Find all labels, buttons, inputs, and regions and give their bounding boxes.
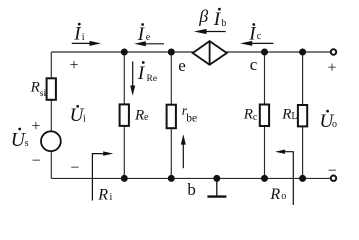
- arrow Ro bent: [275, 150, 293, 206]
- arrow Ib up through rbe: [181, 134, 186, 168]
- svg-text:c: c: [253, 112, 258, 123]
- svg-text:R: R: [243, 107, 253, 123]
- svg-text:L: L: [291, 111, 297, 122]
- label IRe: [137, 61, 157, 84]
- svg-text:+: +: [69, 57, 78, 74]
- svg-text:b: b: [187, 180, 196, 199]
- node b dot: [168, 175, 175, 182]
- label Rsi: [30, 80, 47, 100]
- label Ii: [73, 23, 85, 45]
- label Ri: [97, 186, 112, 203]
- resistor rbe: [167, 105, 176, 129]
- label Ic: [248, 23, 261, 44]
- arrow Ii: [72, 41, 101, 46]
- label rbe: [182, 103, 197, 124]
- node dot ground: [213, 175, 220, 182]
- label Uo: [320, 110, 338, 132]
- wire RL branch: [302, 52, 304, 105]
- label Re: [134, 108, 149, 124]
- svg-text:R: R: [281, 107, 291, 123]
- terminal - output bottom: [331, 176, 336, 181]
- resistor RL: [298, 105, 307, 126]
- wire top rail: [51, 51, 330, 53]
- resistor Re: [120, 104, 129, 126]
- node dot bottom Rc: [261, 175, 268, 182]
- resistor Rc: [260, 105, 269, 127]
- svg-text:+: +: [327, 59, 336, 76]
- svg-text:i: i: [82, 32, 85, 43]
- node dot bottom RL: [299, 175, 306, 182]
- arrow beta Ib: [194, 29, 226, 34]
- svg-text:R: R: [269, 186, 280, 203]
- svg-text:o: o: [281, 191, 286, 202]
- wire rbe branch: [170, 52, 172, 105]
- wire bottom rail: [51, 177, 330, 179]
- terminal + output top: [331, 49, 336, 54]
- svg-text:c: c: [257, 31, 262, 42]
- svg-text:i: i: [83, 113, 86, 124]
- node dot bottom Re: [121, 175, 128, 182]
- label Rc: [243, 107, 258, 123]
- arrow Ic: [240, 41, 273, 46]
- svg-text:Re: Re: [147, 74, 158, 84]
- arrow IRe down: [130, 61, 135, 95]
- label RL: [281, 107, 297, 123]
- wire left branch middle: [50, 100, 52, 132]
- node c dot: [261, 49, 268, 56]
- label Us: [11, 128, 29, 152]
- svg-text:c: c: [250, 55, 258, 74]
- svg-text:−: −: [32, 153, 41, 170]
- node dot top RL: [299, 49, 306, 56]
- svg-text:R: R: [97, 186, 108, 203]
- svg-text:−: −: [70, 159, 79, 176]
- label Ui: [70, 105, 86, 126]
- svg-text:e: e: [178, 56, 186, 75]
- label Ro: [269, 186, 286, 203]
- svg-text:s: s: [25, 138, 29, 149]
- wire left branch upper: [50, 52, 52, 79]
- svg-text:−: −: [328, 162, 337, 179]
- wire left branch lower: [50, 151, 52, 178]
- wire Re branch: [123, 52, 125, 104]
- wire Rc branch: [264, 52, 266, 105]
- node e dot: [168, 49, 175, 56]
- svg-text:+: +: [31, 118, 40, 135]
- label beta Ib: [198, 6, 226, 30]
- svg-text:e: e: [146, 32, 151, 43]
- svg-text:i: i: [110, 192, 113, 203]
- arrow Ie: [134, 41, 164, 46]
- svg-text:b: b: [221, 18, 226, 29]
- svg-text:be: be: [186, 112, 197, 124]
- source Us circle: [41, 131, 61, 151]
- svg-text:R: R: [30, 80, 40, 96]
- svg-text:o: o: [332, 119, 337, 130]
- ground: [207, 178, 226, 196]
- node dot top Re: [121, 49, 128, 56]
- svg-text:R: R: [134, 108, 144, 124]
- svg-text:β: β: [198, 6, 208, 26]
- dependent source beta Ib diamond U1: [193, 41, 227, 65]
- svg-text:e: e: [144, 112, 149, 123]
- svg-text:si: si: [40, 89, 47, 99]
- label Ie: [137, 23, 151, 45]
- resistor Rsi: [47, 78, 56, 100]
- arrow Ri bent: [92, 151, 113, 200]
